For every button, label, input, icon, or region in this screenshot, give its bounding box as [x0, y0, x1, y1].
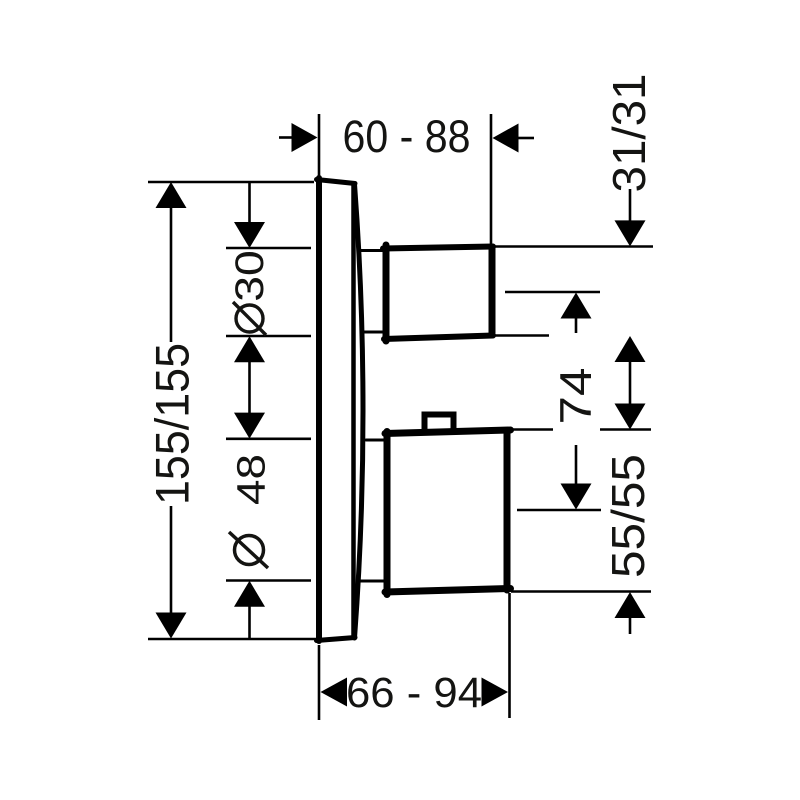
svg-text:155/155: 155/155 [146, 343, 199, 505]
svg-text:60 - 88: 60 - 88 [343, 111, 471, 162]
svg-text:66 - 94: 66 - 94 [346, 669, 482, 717]
svg-text:31/31: 31/31 [603, 74, 655, 193]
svg-text:30: 30 [228, 250, 272, 302]
svg-text:74: 74 [552, 368, 601, 425]
svg-text:48: 48 [230, 454, 274, 505]
svg-text:55/55: 55/55 [602, 454, 654, 578]
